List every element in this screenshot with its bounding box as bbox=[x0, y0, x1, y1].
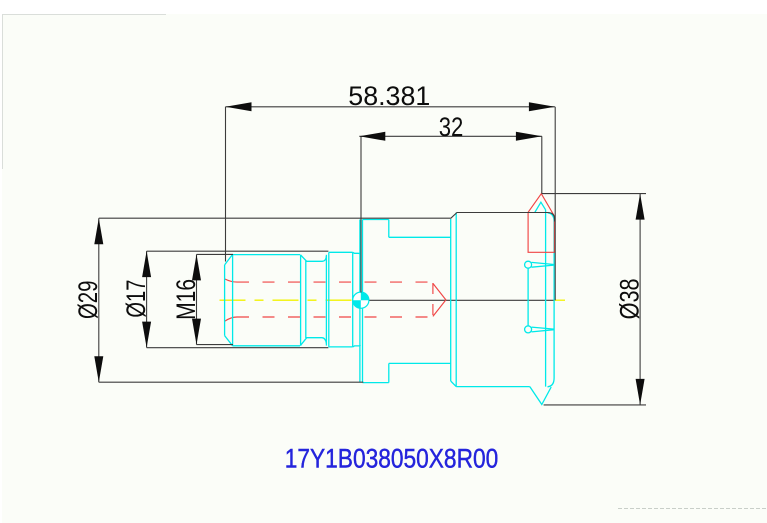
svg-text:Ø17: Ø17 bbox=[121, 280, 151, 318]
nut right edge with rounded corners bbox=[548, 213, 555, 387]
svg-text:32: 32 bbox=[439, 112, 464, 142]
chamfer line vertical bbox=[232, 254, 234, 345]
shank outline (threaded end) bbox=[225, 252, 361, 347]
left end edge bbox=[224, 265, 226, 336]
dimension 58.381 bbox=[226, 107, 556, 300]
sheet frame bottom-right segment (faint dashed) bbox=[618, 508, 767, 510]
arrow left 58.381 bbox=[226, 102, 252, 111]
arrow top Ø29 bbox=[94, 218, 103, 244]
top extension line bbox=[542, 193, 646, 195]
dark profile polyline: Ø29 ext line + flange top + nut top bbox=[99, 213, 555, 222]
groove right wall bbox=[325, 255, 327, 346]
dim line bbox=[639, 194, 641, 405]
flange outline bbox=[360, 219, 456, 387]
neck bottom edge bbox=[353, 345, 361, 347]
sheet frame top-left corner (faint dashed) bbox=[3, 15, 167, 170]
cyan peak (top point) bbox=[535, 202, 546, 212]
nut left edge bbox=[455, 213, 457, 387]
arrow right 32 bbox=[516, 132, 542, 141]
dim line bbox=[226, 106, 555, 108]
arrow top M16 bbox=[192, 254, 201, 280]
arrow bottom Ø29 bbox=[94, 356, 103, 382]
top wedge lines bbox=[532, 262, 555, 267]
dim line bbox=[196, 254, 198, 344]
groove left wall bbox=[300, 255, 302, 346]
inner vertical from peak bbox=[545, 210, 547, 387]
arrow left 32 bbox=[359, 132, 385, 141]
right extension line bbox=[554, 107, 556, 300]
yellow centerline right stub bbox=[554, 299, 566, 301]
dark bottom ext line Ø29 bbox=[99, 381, 364, 383]
red hidden hole line top bbox=[237, 281, 433, 283]
pin link line bbox=[527, 268, 529, 326]
step line bbox=[352, 252, 354, 347]
left extension line bbox=[225, 107, 227, 262]
dark centerline (right half) bbox=[369, 299, 554, 301]
svg-text:17Y1B038050X8R00: 17Y1B038050X8R00 bbox=[285, 443, 499, 473]
neck top edge bbox=[353, 252, 361, 254]
cylinder edge line bbox=[328, 252, 330, 347]
collet nut outline bbox=[456, 202, 554, 404]
flange left edge a bbox=[359, 220, 361, 383]
right extension line bbox=[541, 136, 543, 193]
red clamp point outline (house) bbox=[528, 194, 554, 253]
slot bottom (top side) bbox=[389, 236, 451, 238]
dim line bbox=[146, 251, 148, 348]
thread OD bottom edge bbox=[233, 345, 300, 347]
thread OD top edge bbox=[233, 254, 300, 256]
svg-text:Ø29: Ø29 bbox=[73, 281, 103, 320]
dimension Ø29 bbox=[98, 218, 100, 382]
bottom point (V) bbox=[530, 387, 551, 405]
cylinder top edge bbox=[329, 251, 353, 253]
dim line bbox=[98, 218, 100, 382]
top extension line bbox=[147, 250, 329, 252]
svg-text:M16: M16 bbox=[171, 279, 201, 320]
dimension Ø17 bbox=[147, 251, 329, 348]
red countersink curve top-left bbox=[225, 279, 237, 282]
arrow bottom Ø17 bbox=[142, 322, 151, 348]
dimension M16 bbox=[197, 254, 234, 344]
arrow bottom M16 bbox=[192, 319, 201, 345]
center mark circle bbox=[353, 292, 369, 308]
arrow bottom Ø38 bbox=[636, 379, 645, 405]
flange top edge bbox=[363, 219, 389, 221]
groove bottom profile bbox=[301, 338, 327, 346]
bottom chamfer bbox=[225, 336, 233, 346]
left extension line bbox=[360, 136, 362, 292]
dimension Ø38 bbox=[542, 194, 646, 405]
top extension line bbox=[197, 253, 234, 255]
bottom chamfer to nut bbox=[451, 381, 457, 387]
top chamfer bbox=[225, 254, 233, 265]
bottom wedge lines bbox=[532, 327, 555, 332]
slot pin circle bottom bbox=[525, 326, 532, 333]
slot right wall bbox=[450, 219, 452, 381]
slot left wall bottom bbox=[388, 363, 390, 382]
slot pin circle top bbox=[525, 261, 532, 268]
flange bottom edge bbox=[363, 382, 389, 384]
bottom extension line bbox=[147, 347, 329, 349]
red drill point dashed back edge bbox=[432, 283, 434, 316]
svg-text:Ø38: Ø38 bbox=[615, 278, 645, 319]
groove top profile bbox=[301, 255, 327, 261]
groove inner wall bbox=[305, 261, 307, 338]
dimension 32 bbox=[359, 136, 542, 292]
cylinder bottom edge bbox=[329, 346, 353, 348]
arrow top Ø38 bbox=[636, 194, 645, 220]
slot bottom (bottom side) bbox=[389, 362, 451, 364]
yellow centerline left bbox=[220, 299, 353, 301]
slot left wall top bbox=[388, 220, 390, 238]
red hidden hole line bottom bbox=[237, 316, 433, 318]
bottom extension line bbox=[197, 344, 234, 346]
svg-text:58.381: 58.381 bbox=[348, 81, 430, 111]
dim line bbox=[359, 135, 542, 137]
arrow right 58.381 bbox=[529, 102, 555, 111]
arrow top Ø17 bbox=[142, 251, 151, 277]
red drill cone bbox=[433, 283, 446, 316]
flange left edge b bbox=[362, 220, 364, 383]
red countersink curve bottom-left bbox=[225, 317, 237, 321]
bottom extension line bbox=[544, 404, 646, 406]
nut bottom edge bbox=[456, 386, 530, 388]
